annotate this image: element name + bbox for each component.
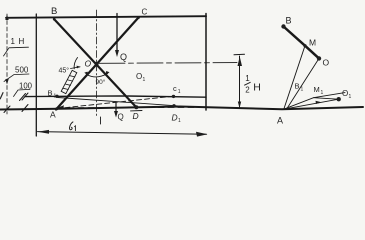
svg-text:45°: 45° (59, 67, 70, 75)
svg-text:c: c (173, 84, 177, 93)
svg-text:M: M (314, 85, 320, 94)
svg-text:1: 1 (321, 90, 324, 96)
svg-text:1: 1 (301, 87, 304, 93)
svg-text:D: D (172, 113, 178, 123)
svg-text:O: O (85, 59, 92, 69)
svg-text:90°: 90° (96, 78, 106, 86)
svg-text:Q: Q (120, 52, 127, 62)
svg-text:2: 2 (245, 86, 250, 95)
svg-text:O: O (136, 72, 142, 81)
svg-text:B: B (51, 6, 57, 17)
svg-text:1: 1 (178, 89, 181, 95)
svg-text:B: B (295, 82, 300, 91)
svg-text:A: A (50, 110, 56, 120)
svg-text:M: M (309, 38, 316, 48)
svg-text:100: 100 (19, 81, 33, 90)
svg-text:O: O (342, 89, 348, 98)
svg-text:1: 1 (54, 94, 57, 100)
svg-text:D: D (133, 111, 139, 121)
svg-text:B: B (48, 89, 53, 98)
svg-text:H: H (253, 82, 261, 94)
svg-text:1: 1 (245, 74, 250, 83)
svg-text:A: A (277, 116, 283, 126)
svg-text:B: B (286, 16, 292, 26)
svg-text:O: O (323, 58, 330, 68)
svg-text:Q: Q (118, 113, 124, 122)
svg-text:1: 1 (11, 37, 16, 46)
svg-text:1: 1 (143, 77, 146, 83)
svg-text:1: 1 (178, 118, 181, 124)
svg-text:C: C (142, 8, 148, 17)
svg-text:500: 500 (15, 65, 29, 74)
svg-text:1: 1 (349, 94, 352, 100)
svg-text:H: H (19, 37, 25, 46)
